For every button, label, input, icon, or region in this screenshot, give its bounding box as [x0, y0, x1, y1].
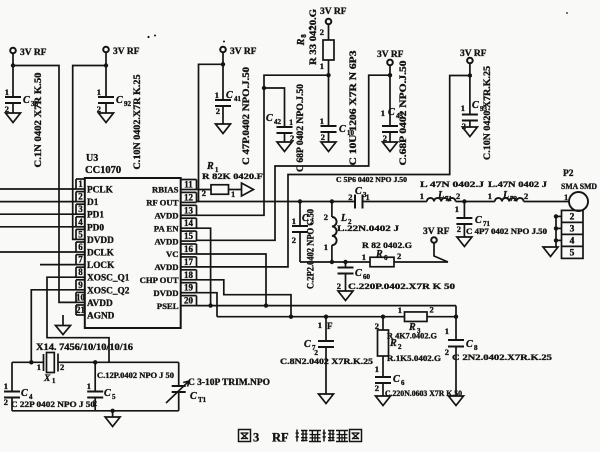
svg-text:2: 2 — [524, 191, 528, 201]
svg-text:13: 13 — [184, 205, 194, 215]
svg-text:XOSC_Q2: XOSC_Q2 — [87, 286, 130, 296]
svg-text:1: 1 — [52, 377, 56, 385]
svg-text:R: R — [296, 38, 307, 46]
svg-text:8: 8 — [78, 267, 83, 277]
svg-text:C.10N 0420.X7R.K.25: C.10N 0420.X7R.K.25 — [482, 65, 492, 160]
svg-text:2: 2 — [320, 27, 324, 37]
svg-text:5: 5 — [112, 393, 116, 401]
svg-text:X: X — [43, 374, 51, 384]
svg-text:1: 1 — [87, 381, 91, 391]
svg-text:C: C — [23, 95, 30, 106]
svg-text:DVDD: DVDD — [153, 288, 178, 298]
svg-text:P2: P2 — [563, 169, 574, 179]
svg-text:2: 2 — [397, 251, 401, 261]
svg-text:4: 4 — [570, 237, 575, 247]
svg-text:11: 11 — [184, 180, 193, 190]
svg-text:1: 1 — [381, 108, 385, 118]
svg-text:1: 1 — [420, 191, 424, 201]
svg-text:5: 5 — [570, 249, 575, 259]
svg-text:17: 17 — [184, 257, 194, 267]
svg-text:1: 1 — [318, 320, 322, 330]
svg-text:C.1N 0402 X7R K.50: C.1N 0402 X7R K.50 — [33, 72, 43, 168]
svg-text:SMA SMD: SMA SMD — [561, 181, 597, 191]
svg-text:C.12P.0402 NPO J 50: C.12P.0402 NPO J 50 — [97, 370, 174, 380]
svg-text:CHP OUT: CHP OUT — [140, 275, 179, 285]
svg-text:20: 20 — [184, 296, 194, 306]
svg-text:12: 12 — [184, 192, 194, 202]
svg-text:C 2N2.0402.X7R.K.25: C 2N2.0402.X7R.K.25 — [452, 352, 553, 362]
svg-text:C: C — [472, 100, 479, 111]
svg-text:C: C — [388, 107, 395, 118]
svg-text:1: 1 — [366, 192, 370, 202]
svg-text:2: 2 — [60, 362, 64, 372]
svg-text:LOCK: LOCK — [87, 261, 115, 271]
svg-text:14: 14 — [184, 218, 194, 228]
svg-text:3V RF: 3V RF — [230, 47, 257, 57]
svg-text:L 47N 0402.J: L 47N 0402.J — [420, 179, 485, 189]
svg-text:AVDD: AVDD — [155, 211, 179, 221]
svg-text:C: C — [339, 124, 346, 135]
svg-text:2: 2 — [456, 191, 460, 201]
svg-text:RF: RF — [272, 431, 289, 445]
svg-text:C.2P2.0402 NPO C.50: C.2P2.0402 NPO C.50 — [306, 209, 316, 289]
svg-text:1: 1 — [398, 305, 402, 315]
svg-text:1: 1 — [231, 189, 235, 199]
svg-text:CC1070: CC1070 — [85, 165, 121, 176]
svg-text:6: 6 — [401, 379, 405, 387]
svg-text:R 82K 0420.F: R 82K 0420.F — [202, 171, 263, 181]
svg-text:XOSC_Q1: XOSC_Q1 — [87, 274, 130, 284]
svg-text:C 10U 1206 X7R N 6P3: C 10U 1206 X7R N 6P3 — [348, 50, 358, 166]
svg-text:PD0: PD0 — [87, 223, 104, 233]
svg-text:2: 2 — [398, 343, 402, 351]
svg-text:1: 1 — [4, 381, 8, 391]
svg-text:2: 2 — [78, 192, 83, 202]
svg-text:AGND: AGND — [87, 312, 115, 322]
svg-text:1: 1 — [5, 87, 9, 97]
svg-text:RF OUT: RF OUT — [146, 198, 178, 208]
svg-text:3: 3 — [78, 204, 83, 214]
svg-text:3V RF: 3V RF — [460, 49, 487, 59]
svg-text:C 3-10P TRIM.NPO: C 3-10P TRIM.NPO — [188, 377, 270, 387]
svg-text:2: 2 — [321, 132, 325, 142]
svg-text:L.47N 0402 J: L.47N 0402 J — [488, 179, 548, 189]
svg-text:R 33 0420.G: R 33 0420.G — [308, 9, 318, 65]
svg-text:D1: D1 — [87, 198, 99, 208]
svg-text:U3: U3 — [86, 153, 98, 164]
svg-text:PCLK: PCLK — [87, 186, 114, 196]
svg-text:16: 16 — [184, 244, 194, 254]
svg-text:3V RF: 3V RF — [320, 7, 347, 17]
svg-text:1: 1 — [289, 117, 293, 127]
svg-text:R: R — [375, 249, 383, 260]
svg-text:PSEL: PSEL — [157, 301, 179, 311]
svg-text:C: C — [266, 113, 273, 124]
svg-text:C: C — [226, 90, 233, 101]
svg-text:10: 10 — [76, 292, 86, 302]
svg-text:1: 1 — [488, 191, 492, 201]
svg-text:C: C — [21, 388, 28, 399]
svg-text:RBIAS: RBIAS — [152, 185, 179, 195]
svg-text:3V RF: 3V RF — [377, 50, 404, 60]
svg-text:15: 15 — [184, 231, 194, 241]
svg-text:F: F — [327, 321, 333, 331]
svg-text:3: 3 — [570, 225, 575, 235]
svg-text:1: 1 — [362, 252, 366, 262]
svg-text:8: 8 — [300, 34, 308, 38]
svg-text:AVDD: AVDD — [87, 299, 113, 309]
svg-text:1: 1 — [292, 216, 296, 226]
svg-text:19: 19 — [184, 283, 194, 293]
svg-text:C 68P 0402 NPO.J.50: C 68P 0402 NPO.J.50 — [295, 83, 305, 172]
svg-text:C.220P.0402.X7R K 50: C.220P.0402.X7R K 50 — [348, 281, 456, 291]
svg-text:7: 7 — [78, 255, 83, 265]
svg-text:R 82 0402.G: R 82 0402.G — [362, 240, 412, 250]
svg-text:1: 1 — [320, 61, 324, 71]
svg-text:6: 6 — [78, 242, 83, 252]
svg-text:60: 60 — [363, 273, 371, 281]
svg-text:PA EN: PA EN — [154, 223, 179, 233]
svg-text:1: 1 — [215, 90, 219, 100]
svg-text:21: 21 — [76, 305, 86, 315]
svg-text:C.10N 0402.X7R K.25: C.10N 0402.X7R K.25 — [132, 74, 142, 170]
svg-text:3V RF: 3V RF — [113, 47, 140, 57]
svg-text:1: 1 — [461, 103, 465, 113]
svg-text:C 22P 0402 NPO J 50: C 22P 0402 NPO J 50 — [11, 399, 95, 409]
svg-text:3: 3 — [253, 431, 259, 445]
svg-text:T1: T1 — [198, 396, 207, 404]
svg-text:C: C — [475, 215, 482, 226]
svg-text:X14. 7456/10/10/10/16: X14. 7456/10/10/10/16 — [36, 342, 133, 352]
svg-text:42: 42 — [274, 118, 282, 126]
svg-text:5: 5 — [78, 229, 83, 239]
svg-text:2: 2 — [457, 224, 461, 234]
svg-text:3V RF: 3V RF — [20, 48, 47, 58]
svg-text:AVDD: AVDD — [155, 262, 179, 272]
svg-text:C.68P 0402 NPO.J.50: C.68P 0402 NPO.J.50 — [398, 60, 408, 166]
svg-text:1: 1 — [97, 87, 101, 97]
svg-text:2: 2 — [570, 213, 575, 223]
svg-text:1: 1 — [375, 364, 379, 374]
svg-text:C: C — [466, 339, 473, 350]
svg-text:C: C — [190, 391, 197, 402]
svg-text:1: 1 — [455, 204, 459, 214]
svg-text:PD1: PD1 — [87, 211, 104, 221]
svg-text:1: 1 — [37, 362, 41, 372]
svg-text:8: 8 — [474, 344, 478, 352]
svg-text:1: 1 — [324, 242, 328, 252]
svg-text:2: 2 — [445, 347, 449, 357]
svg-text:2: 2 — [292, 235, 296, 245]
svg-text:C 47P.0402 NPO.J.50: C 47P.0402 NPO.J.50 — [241, 66, 251, 165]
svg-text:1: 1 — [445, 326, 449, 336]
svg-text:1: 1 — [564, 192, 568, 202]
svg-text:C: C — [304, 339, 311, 350]
svg-text:C: C — [104, 388, 111, 399]
svg-text:1: 1 — [78, 179, 83, 189]
svg-text:C: C — [355, 186, 362, 197]
svg-text:92: 92 — [124, 100, 132, 108]
svg-text:C 4P7 0402 NPO J.50: C 4P7 0402 NPO J.50 — [466, 227, 547, 236]
svg-text:2: 2 — [375, 383, 379, 393]
svg-text:9: 9 — [78, 280, 83, 290]
svg-text:L.22N.0402 J: L.22N.0402 J — [337, 223, 400, 233]
svg-text:2: 2 — [216, 106, 220, 116]
svg-text:3V RF: 3V RF — [423, 227, 450, 237]
svg-text:2: 2 — [202, 188, 206, 198]
svg-text:18: 18 — [184, 270, 194, 280]
svg-text:C: C — [393, 374, 400, 385]
svg-text:AVDD: AVDD — [155, 236, 179, 246]
svg-text:DCLK: DCLK — [87, 249, 115, 259]
svg-text:C 5P6 0402 NPO J.50: C 5P6 0402 NPO J.50 — [336, 175, 407, 184]
svg-text:R: R — [389, 338, 397, 349]
svg-text:C: C — [355, 268, 362, 279]
svg-text:2: 2 — [4, 397, 8, 407]
svg-text:2: 2 — [348, 192, 352, 202]
svg-text:VC: VC — [166, 249, 179, 259]
svg-text:2: 2 — [324, 212, 328, 222]
svg-text:2: 2 — [337, 281, 341, 291]
svg-text:DVDD: DVDD — [87, 236, 114, 246]
svg-text:4: 4 — [78, 217, 83, 227]
svg-text:2: 2 — [430, 305, 434, 315]
svg-text:R.1K5.0402.G: R.1K5.0402.G — [387, 353, 441, 363]
svg-text:1: 1 — [320, 116, 324, 126]
svg-text:C: C — [116, 95, 123, 106]
